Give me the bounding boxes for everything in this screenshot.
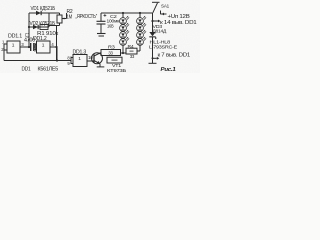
svg-text:DD1.3: DD1.3 [73, 49, 87, 55]
svg-text:Рис.1: Рис.1 [161, 67, 177, 73]
svg-text:DD1.2: DD1.2 [33, 36, 47, 42]
svg-text:L-793SRC-E: L-793SRC-E [149, 45, 177, 50]
svg-text:16В: 16В [107, 23, 114, 28]
svg-text:R3: R3 [108, 45, 115, 50]
svg-text:VD2 КД521Б: VD2 КД521Б [30, 21, 56, 27]
svg-text:VD1 КД521Б: VD1 КД521Б [31, 6, 56, 12]
svg-text:КТ973Б: КТ973Б [107, 68, 126, 73]
svg-text:6: 6 [34, 49, 36, 53]
svg-text:Д814Д: Д814Д [153, 28, 168, 33]
svg-text:DD1.1: DD1.1 [8, 33, 22, 39]
svg-text:R4: R4 [128, 44, 135, 49]
svg-text:к 14 выв. DD1: к 14 выв. DD1 [160, 20, 197, 26]
svg-text:DD1: DD1 [22, 66, 31, 72]
svg-text:„ЯРКОСТЬ”: „ЯРКОСТЬ” [76, 14, 98, 20]
svg-text:1М: 1М [67, 14, 73, 20]
svg-text:К561ЛЕ5: К561ЛЕ5 [38, 67, 59, 73]
svg-text:к 7 выв. DD1: к 7 выв. DD1 [158, 53, 191, 59]
svg-text:SA1: SA1 [161, 3, 170, 8]
